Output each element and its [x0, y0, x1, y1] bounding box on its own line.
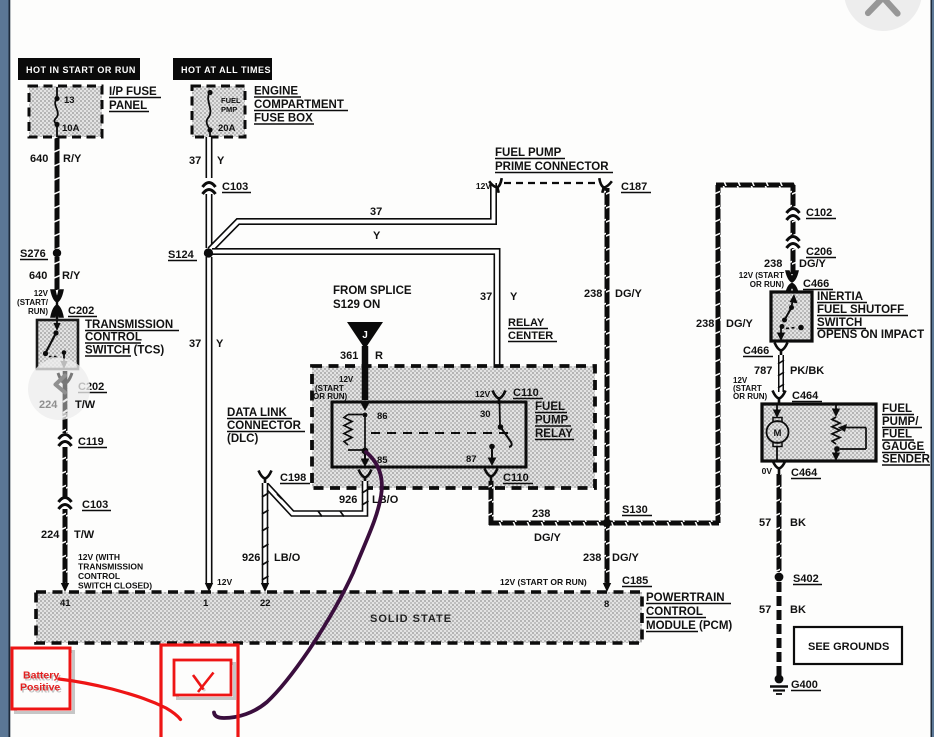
svg-text:J: J — [362, 330, 368, 341]
svg-text:FUEL PUMP: FUEL PUMP — [495, 147, 562, 159]
svg-text:12V (START: 12V (START — [739, 271, 784, 280]
connector bird left — [489, 178, 505, 194]
label I/P FUSE PANEL — [109, 86, 161, 112]
inertia fuel shutoff switch box — [771, 292, 812, 341]
svg-text:238: 238 — [583, 552, 601, 564]
svg-text:8: 8 — [604, 599, 609, 610]
wire 37 Y (double line) — [189, 137, 225, 178]
svg-text:CONTROL: CONTROL — [78, 571, 120, 581]
C110 bird at pin 30 — [493, 391, 506, 405]
svg-text:CENTER: CENTER — [508, 330, 553, 342]
svg-text:FUEL: FUEL — [882, 429, 912, 441]
svg-text:G400: G400 — [791, 679, 818, 691]
right blue border — [931, 0, 933, 737]
connector C206 — [787, 236, 800, 248]
svg-text:PUMP/: PUMP/ — [882, 416, 919, 428]
svg-text:C198: C198 — [280, 472, 306, 484]
svg-text:FUEL: FUEL — [535, 401, 565, 413]
svg-text:20A: 20A — [218, 123, 236, 134]
connector C103 — [203, 181, 252, 194]
wire 238 DG/Y long vertical — [716, 185, 721, 523]
svg-text:13: 13 — [64, 95, 75, 106]
svg-text:C187: C187 — [621, 181, 647, 193]
svg-text:22: 22 — [260, 598, 271, 609]
svg-text:Positive: Positive — [20, 682, 60, 694]
connector C202 (mating pair, solid) — [51, 290, 97, 320]
connector C464 — [773, 391, 786, 405]
svg-text:SEE GROUNDS: SEE GROUNDS — [808, 641, 889, 653]
svg-text:12V: 12V — [476, 181, 491, 191]
inner red box with check mark — [174, 660, 231, 695]
wire 238 DG/Y from C187 down to S130 — [605, 188, 610, 522]
svg-text:Battery: Battery — [23, 670, 59, 682]
svg-text:FUEL SHUTOFF: FUEL SHUTOFF — [817, 304, 904, 316]
svg-text:I/P FUSE: I/P FUSE — [109, 86, 157, 98]
svg-text:238: 238 — [532, 508, 550, 520]
12V (WITH TRANSMISSION CONTROL SWITCH CLOSED) note — [78, 552, 152, 591]
svg-text:238: 238 — [696, 318, 714, 330]
relay coil — [344, 415, 352, 446]
greyed wire seen through overlay — [63, 371, 68, 413]
ground G400 — [770, 675, 821, 694]
wire 57 BK upper — [777, 474, 782, 572]
wire to C206 — [791, 220, 796, 237]
svg-text:C110: C110 — [513, 387, 539, 399]
svg-text:SWITCH: SWITCH — [817, 317, 862, 329]
prime connector dashed jumper wire — [504, 182, 600, 184]
svg-text:(START/: (START/ — [17, 298, 49, 307]
svg-text:10A: 10A — [62, 123, 80, 134]
svg-text:DG/Y: DG/Y — [534, 532, 562, 544]
mechanical link dashed — [371, 432, 514, 434]
wire down to C466 — [791, 248, 796, 274]
svg-text:COMPARTMENT: COMPARTMENT — [254, 99, 344, 111]
svg-text:87: 87 — [466, 454, 477, 465]
svg-text:HOT AT ALL TIMES: HOT AT ALL TIMES — [181, 65, 271, 75]
connector C102 — [787, 208, 800, 220]
wire DG/Y from relay 87 down — [489, 481, 494, 525]
wire 640 R/Y (striped) — [55, 137, 60, 249]
svg-text:OPENS ON IMPACT: OPENS ON IMPACT — [817, 329, 924, 341]
wire 640 R/Y lower — [55, 257, 60, 290]
svg-text:C185: C185 — [622, 575, 648, 587]
svg-text:86: 86 — [377, 411, 388, 422]
svg-text:(DLC): (DLC) — [227, 433, 258, 445]
splice S276 — [20, 248, 61, 260]
svg-text:ENGINE: ENGINE — [254, 86, 298, 98]
svg-text:TRANSMISSION: TRANSMISSION — [78, 562, 143, 572]
svg-text:12V: 12V — [475, 389, 490, 399]
svg-text:CONTROL: CONTROL — [85, 332, 142, 344]
header HOT AT ALL TIMES — [173, 58, 272, 80]
wire 361 R thick — [362, 346, 369, 400]
connector C103 left — [59, 497, 112, 511]
purple pen stroke from relay pin 85 to bottom — [214, 452, 382, 718]
svg-text:BK: BK — [790, 604, 806, 616]
C110 bird below pin 87 — [485, 469, 498, 483]
svg-text:Y: Y — [216, 338, 224, 350]
splice S124 — [168, 248, 213, 261]
svg-text:787: 787 — [754, 365, 772, 377]
svg-text:S402: S402 — [793, 573, 819, 585]
svg-text:MODULE (PCM): MODULE (PCM) — [646, 620, 732, 632]
svg-text:37: 37 — [189, 155, 201, 167]
svg-text:LB/O: LB/O — [372, 494, 399, 506]
bird below relay pin 85 — [359, 470, 372, 484]
svg-text:FUEL: FUEL — [882, 403, 912, 415]
fuse box I/P FUSE PANEL — [29, 86, 102, 137]
fuel pump motor — [767, 404, 789, 461]
svg-text:30: 30 — [480, 409, 491, 420]
connector C464 below — [773, 461, 786, 475]
svg-text:LB/O: LB/O — [274, 552, 301, 564]
connector C119 — [59, 434, 108, 448]
svg-text:361: 361 — [340, 350, 358, 362]
svg-text:12V: 12V — [34, 289, 49, 298]
wire 238 DG/Y from S130 down to PCM — [605, 525, 610, 584]
label ENGINE COMPARTMENT FUSE BOX — [254, 86, 348, 125]
red box: battery positive callout (shadow) — [16, 652, 74, 713]
wire 361R into box + arrow — [362, 366, 369, 400]
svg-text:CONNECTOR: CONNECTOR — [227, 420, 302, 432]
svg-text:57: 57 — [759, 604, 771, 616]
svg-text:RELAY: RELAY — [535, 428, 573, 440]
svg-text:926: 926 — [242, 552, 260, 564]
wire 926 LB/O from relay to C198 (outlined with hatches) — [266, 481, 369, 517]
label INERTIA FUEL SHUTOFF SWITCH OPENS ON IMPACT — [817, 291, 924, 341]
wire 926 LB/O down to PCM pin 22 — [261, 483, 269, 592]
svg-text:C110: C110 — [503, 472, 529, 484]
svg-text:C466: C466 — [803, 278, 829, 290]
svg-text:57: 57 — [759, 517, 771, 529]
wire 37 branch up-right to prime connector — [210, 183, 494, 250]
svg-text:T/W: T/W — [75, 399, 96, 411]
12V (START/RUN) note — [17, 289, 49, 316]
svg-text:C202: C202 — [68, 305, 94, 317]
svg-text:OR RUN): OR RUN) — [750, 280, 785, 289]
svg-text:37: 37 — [189, 338, 201, 350]
wire 787 PK/BK (outlined with hatch) — [778, 355, 784, 392]
wire 224 T/W lower — [63, 509, 68, 585]
SEE GROUNDS box — [794, 627, 902, 664]
close button top right — [844, 0, 922, 31]
svg-text:Y: Y — [373, 230, 381, 242]
svg-text:T/W: T/W — [74, 529, 95, 541]
svg-text:640: 640 — [29, 270, 47, 282]
connector C202 lower — [58, 373, 107, 393]
carousel overlay circle — [28, 358, 90, 420]
svg-text:PK/BK: PK/BK — [790, 365, 824, 377]
svg-text:POWERTRAIN: POWERTRAIN — [646, 592, 725, 604]
fuel gauge sender rheostat — [832, 404, 866, 461]
svg-text:DG/Y: DG/Y — [799, 258, 827, 270]
svg-text:C464: C464 — [791, 467, 818, 479]
label FUEL PUMP / FUEL GAUGE SENDER — [882, 403, 931, 466]
svg-text:926: 926 — [339, 494, 357, 506]
wire 37 Y down to PCM pin 1 — [189, 257, 232, 592]
splice S402 — [775, 573, 784, 582]
svg-text:CONTROL: CONTROL — [646, 606, 703, 618]
svg-text:C464: C464 — [792, 390, 819, 402]
svg-text:41: 41 — [60, 598, 71, 609]
wire T/W — [63, 447, 68, 497]
connector C466 (mating pair solid) — [786, 271, 798, 293]
label FUEL PUMP RELAY — [535, 401, 574, 440]
svg-text:C103: C103 — [222, 181, 248, 193]
svg-text:85: 85 — [377, 455, 388, 466]
svg-text:12V: 12V — [339, 375, 354, 384]
svg-text:SENDER: SENDER — [882, 454, 931, 466]
svg-text:R/Y: R/Y — [62, 270, 81, 282]
S124 junction dot (over wires) — [204, 248, 213, 257]
left blue border — [0, 0, 9, 737]
svg-text:C206: C206 — [806, 246, 832, 258]
svg-text:1: 1 — [203, 598, 209, 609]
fuel pump relay inner box — [332, 402, 526, 467]
svg-text:TRANSMISSION: TRANSMISSION — [85, 319, 173, 331]
svg-text:OR RUN): OR RUN) — [313, 392, 348, 401]
svg-text:SWITCH (TCS): SWITCH (TCS) — [85, 345, 164, 357]
svg-text:238: 238 — [584, 288, 602, 300]
svg-text:S276: S276 — [20, 248, 46, 260]
fuel pump / fuel gauge sender box — [762, 404, 876, 461]
svg-text:12V: 12V — [217, 577, 232, 587]
inertia switch internals — [777, 294, 804, 341]
svg-text:R: R — [375, 350, 383, 362]
red pen stroke from callout — [59, 679, 181, 720]
svg-text:224: 224 — [39, 399, 58, 411]
svg-text:SOLID STATE: SOLID STATE — [370, 613, 452, 625]
svg-text:37: 37 — [480, 291, 492, 303]
red box: highlight around pin area — [161, 645, 238, 737]
svg-text:GAUGE: GAUGE — [882, 441, 925, 453]
wire 224 T/W (striped) — [63, 388, 68, 433]
relay pin 87 arrow — [491, 447, 493, 458]
svg-text:640: 640 — [30, 153, 48, 165]
red box battery positive — [12, 648, 70, 709]
svg-text:FUEL: FUEL — [221, 96, 241, 105]
label DATA LINK CONNECTOR (DLC) — [227, 407, 305, 445]
svg-text:C466: C466 — [743, 345, 769, 357]
svg-text:PANEL: PANEL — [109, 100, 147, 112]
svg-text:224: 224 — [41, 529, 60, 541]
svg-text:DG/Y: DG/Y — [615, 288, 643, 300]
wire down to S124 — [206, 194, 213, 248]
svg-text:R/Y: R/Y — [63, 153, 82, 165]
connector C198 — [259, 471, 272, 485]
connector bird right C187 — [596, 178, 612, 194]
S130 horizontal wire 238 DG/Y — [489, 521, 719, 526]
svg-text:0V: 0V — [762, 466, 773, 476]
red check/V mark — [195, 677, 206, 692]
svg-text:C102: C102 — [806, 207, 832, 219]
svg-text:INERTIA: INERTIA — [817, 291, 863, 303]
pin arrow into PCM pin 41 — [61, 583, 69, 592]
header HOT IN START OR RUN — [18, 58, 140, 80]
svg-text:PMP: PMP — [221, 105, 237, 114]
fuse F13 10A — [54, 87, 79, 137]
svg-text:C119: C119 — [78, 436, 104, 448]
svg-text:PUMP: PUMP — [535, 415, 569, 427]
svg-text:RELAY: RELAY — [508, 317, 545, 329]
carousel chevron — [56, 376, 66, 393]
connector C466 below — [775, 343, 788, 357]
svg-text:FUSE BOX: FUSE BOX — [254, 113, 313, 125]
svg-text:S129 ON: S129 ON — [333, 299, 380, 311]
svg-text:DATA LINK: DATA LINK — [227, 407, 288, 419]
svg-text:BK: BK — [790, 517, 806, 529]
inner red box shadow — [178, 664, 235, 699]
12V (START OR RUN) note — [733, 376, 768, 401]
label POWERTRAIN CONTROL MODULE (PCM) — [646, 592, 732, 632]
svg-text:DG/Y: DG/Y — [612, 552, 640, 564]
svg-text:PRIME CONNECTOR: PRIME CONNECTOR — [495, 161, 609, 173]
wire 57 BK lower (dashy scan) — [777, 582, 782, 676]
svg-text:SWITCH CLOSED): SWITCH CLOSED) — [78, 581, 152, 591]
svg-text:DG/Y: DG/Y — [726, 318, 754, 330]
svg-text:OR RUN): OR RUN) — [733, 392, 768, 401]
svg-text:238: 238 — [764, 258, 782, 270]
svg-text:S124: S124 — [168, 249, 195, 261]
triangle J — [347, 322, 383, 349]
svg-text:12V (WITH: 12V (WITH — [78, 552, 120, 562]
wire Y branch right to relay — [212, 230, 497, 394]
svg-text:C103: C103 — [82, 499, 108, 511]
svg-text:Y: Y — [217, 155, 225, 167]
12V (START OR RUN) inside relay box — [313, 375, 354, 401]
svg-text:M: M — [774, 428, 782, 439]
wire top horizontal to C102 — [716, 183, 795, 188]
svg-text:FROM SPLICE: FROM SPLICE — [333, 285, 412, 297]
svg-text:RUN): RUN) — [28, 307, 48, 316]
label TRANSMISSION CONTROL SWITCH (TCS) — [85, 319, 179, 357]
fuse box ENGINE COMPARTMENT — [192, 86, 245, 137]
svg-text:S130: S130 — [622, 504, 648, 516]
transmission control switch (TCS) box — [37, 320, 78, 369]
svg-text:37: 37 — [370, 206, 382, 218]
svg-text:Y: Y — [510, 291, 518, 303]
relay pin 85 arrow — [361, 459, 370, 468]
svg-text:12V (START OR RUN): 12V (START OR RUN) — [500, 577, 587, 587]
svg-text:HOT IN START OR RUN: HOT IN START OR RUN — [26, 65, 136, 75]
fuse FUEL PMP 20A — [207, 90, 241, 137]
